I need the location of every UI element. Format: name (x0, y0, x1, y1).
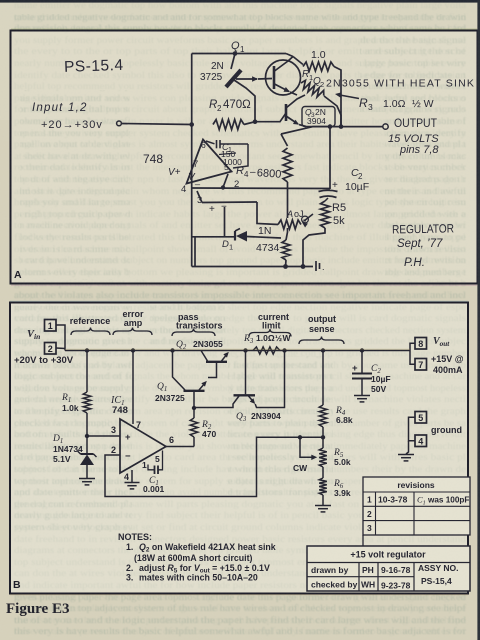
output terminal circle (383, 124, 388, 129)
wire input to node (121, 124, 191, 125)
capacitor C1 (comp) (206, 141, 215, 144)
colour fringing on frames (11, 28, 477, 30)
resistor R4 6800 (vertical) (281, 134, 288, 146)
wire terminals 5,4 to ground (409, 417, 416, 441)
panel A frame (11, 31, 478, 284)
page right edge (477, 0, 480, 640)
terminal 7 (415, 359, 427, 371)
ground below D1 (79, 478, 95, 480)
page top edge (0, 0, 480, 3)
boxed label Q3 2N 3904 (302, 107, 335, 127)
node R3 left (243, 348, 247, 352)
terminal 8 (415, 338, 427, 350)
wire pin4 to ground (131, 470, 133, 482)
terminal 2 (45, 343, 57, 355)
terminal 5 (415, 412, 427, 424)
node R4 top (321, 348, 325, 352)
wire bottom rail (194, 237, 196, 267)
wire pin6 to R2 (166, 446, 194, 448)
node C2 top (360, 348, 364, 352)
wire pin3 stub (87, 435, 120, 437)
figure B panel background (10, 303, 468, 594)
terminal 4 (415, 435, 427, 447)
input terminal circle (117, 121, 122, 126)
panel B frame (10, 303, 468, 594)
ground below R6 (315, 505, 331, 507)
node input junction (189, 122, 194, 127)
wire top rail (192, 53, 286, 55)
wire pin2 feedback loop (105, 437, 323, 496)
node Q1 collector rail (170, 348, 174, 352)
node Q1 collector junction (233, 51, 238, 56)
wire output (281, 127, 383, 134)
ground tick marks (315, 261, 317, 271)
resistor to ground (below pot) (282, 240, 290, 260)
title block (307, 546, 470, 591)
wire Q3 base (255, 113, 286, 122)
wire to terminals 8,7 (410, 343, 415, 364)
wire pin2 feedback line (223, 174, 228, 188)
capacitor C1 0.001 (148, 465, 154, 470)
node divider tap (321, 435, 325, 439)
wire rail corner to collector (286, 54, 293, 57)
wire pin7 supply (132, 351, 134, 425)
wire main left vertical (191, 54, 193, 267)
transistor Q2 2N3055 (circle) (266, 60, 301, 95)
wire R2 junction up to Q1 base (234, 80, 255, 122)
node pin7 rail (131, 348, 135, 352)
node Q1 base (192, 406, 196, 410)
wire pin3 line (197, 191, 202, 203)
node reference (85, 434, 89, 438)
node R1 top (85, 348, 89, 352)
wire Q2 base jog (208, 362, 217, 378)
node R3 right (282, 348, 286, 352)
wire terminals to rail (56, 325, 65, 351)
terminal 1 (45, 320, 57, 332)
wire main input rail (65, 350, 410, 352)
revisions table (363, 477, 470, 535)
figure A panel background (11, 31, 478, 284)
annotation arrow to R3 (337, 95, 359, 99)
resistor R3 1.0 ohm (diagonal, emitter) (299, 79, 326, 99)
transistor Q3 2N3904 (285, 104, 288, 121)
